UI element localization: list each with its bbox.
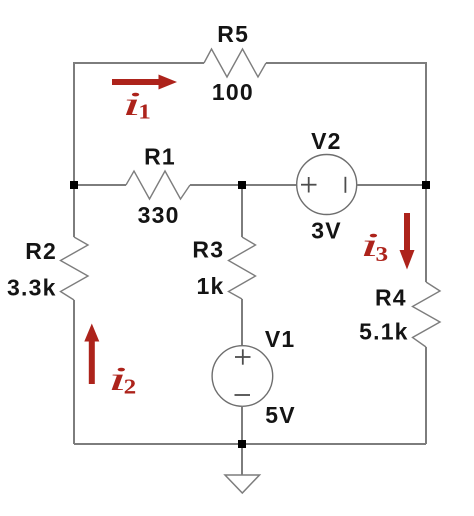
svg-text:R2: R2 (25, 238, 57, 264)
wire right vertical to R4 (425, 185, 427, 282)
ground (225, 475, 260, 493)
wire R2 to bottom (73, 300, 75, 444)
current arrow i1 (112, 75, 177, 90)
V1 plus terminal (235, 349, 251, 364)
wire R4 to bottom (425, 347, 427, 444)
wire V2 to node C (357, 184, 426, 186)
svg-text:1: 1 (138, 100, 151, 124)
resistor R1 (126, 171, 190, 199)
current arrow i3 (400, 213, 415, 270)
wire V1 to bottom node (241, 406, 243, 444)
svg-text:1k: 1k (197, 273, 225, 299)
wire top-right segment (266, 63, 426, 185)
wire node B to R3 (241, 185, 243, 237)
resistor R2 (61, 237, 89, 300)
wire bottom node to ground (241, 444, 243, 475)
wire bottom (74, 443, 426, 445)
svg-text:330: 330 (138, 202, 180, 228)
node D (bottom junction) (238, 440, 246, 448)
voltage source V2 (297, 155, 357, 215)
resistor R3 (229, 237, 256, 299)
current arrow i2 (84, 324, 99, 385)
svg-text:R3: R3 (192, 237, 224, 263)
svg-text:3: 3 (376, 243, 389, 267)
wire node B to V2 (242, 184, 297, 186)
resistor R5 (204, 49, 266, 77)
svg-text:R1: R1 (144, 144, 176, 170)
svg-text:5V: 5V (265, 402, 296, 428)
node B (center middle junction) (238, 181, 246, 189)
node C (right middle junction) (422, 181, 430, 189)
wire left vertical to R2 (73, 185, 75, 237)
V2 minus terminal (344, 177, 346, 193)
svg-text:V1: V1 (265, 326, 296, 352)
node A (left middle junction) (70, 181, 78, 189)
wire R1 to node B (190, 184, 242, 186)
svg-text:5.1k: 5.1k (359, 319, 409, 345)
resistor R4 (413, 282, 441, 347)
svg-text:100: 100 (212, 79, 254, 105)
svg-text:R5: R5 (217, 21, 249, 47)
svg-text:V2: V2 (311, 128, 342, 154)
V1 minus terminal (235, 394, 251, 396)
wire top-left vertical segment (74, 63, 204, 185)
svg-text:3V: 3V (311, 217, 342, 243)
wire R3 to V1 (241, 299, 243, 346)
voltage source V1 (212, 346, 273, 407)
svg-text:3.3k: 3.3k (7, 275, 57, 301)
svg-text:R4: R4 (375, 285, 407, 311)
svg-text:2: 2 (124, 375, 137, 399)
V2 plus terminal (301, 177, 317, 193)
wire middle-left segment (74, 184, 126, 186)
